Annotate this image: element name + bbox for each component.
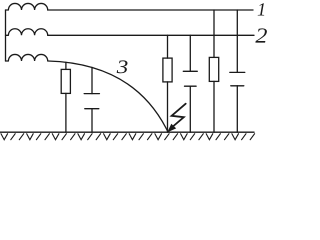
inductor L3 (phase 3 winding) — [6, 54, 48, 61]
arrester F3 body — [209, 57, 218, 81]
spark gap G2 top stub — [189, 35, 191, 71]
lightning bolt stroke — [172, 104, 186, 127]
lightning arrowhead — [167, 124, 176, 133]
spark gap G1 top stub — [91, 67, 93, 93]
wire line 1 — [48, 9, 253, 11]
left bus wire — [5, 10, 7, 61]
wire 3 sagging conductor (curve) — [48, 61, 168, 132]
spark gap G1 lower bar — [85, 108, 99, 110]
spark gap G3 top stub — [236, 10, 238, 72]
spark gap G2 lower bar — [185, 85, 197, 87]
label 1 — [258, 3, 265, 15]
wire line 2 — [48, 34, 254, 36]
ground line — [0, 131, 254, 133]
arrester F3 top stub — [213, 10, 215, 57]
label 3 — [117, 60, 128, 73]
label 2 — [255, 28, 267, 42]
arrester F2 top stub — [167, 35, 169, 58]
spark gap G2 ground lead — [189, 86, 191, 132]
spark gap G1 upper bar — [84, 93, 99, 95]
spark gap G1 ground lead — [91, 109, 93, 133]
inductor L2 (phase 2 winding) — [6, 29, 48, 36]
arrester F2 body — [163, 58, 172, 82]
spark gap G3 upper bar — [230, 71, 245, 73]
arrester F2 ground lead — [167, 82, 169, 132]
arrester F1 body — [61, 69, 70, 93]
ground hatching — [1, 134, 255, 140]
spark gap G3 ground lead — [236, 86, 238, 132]
arrester F1 ground lead — [65, 93, 67, 132]
arrester F3 ground lead — [213, 81, 215, 132]
inductor L1 (phase 1 winding) — [6, 3, 48, 10]
spark gap G3 lower bar — [231, 85, 244, 87]
spark gap G2 upper bar — [183, 70, 197, 72]
arrester F1 top stub — [65, 62, 67, 69]
